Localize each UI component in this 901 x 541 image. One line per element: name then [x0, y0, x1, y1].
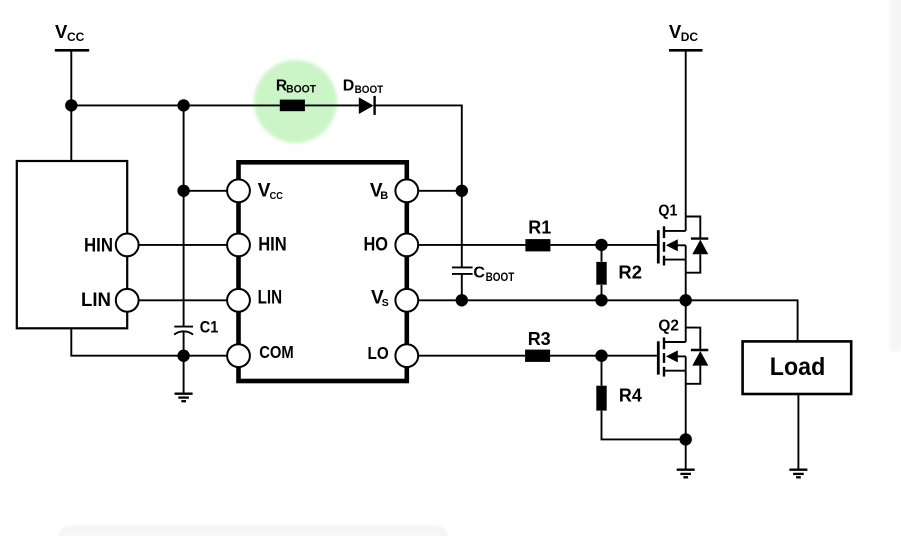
transistor Q1 — [658, 202, 708, 272]
wire VS to Q2 drain — [685, 300, 687, 342]
junction dot VS-CBOOT — [456, 294, 468, 306]
transistor Q2 — [658, 318, 708, 384]
wire LO to R3 — [418, 355, 525, 357]
svg-text:R3: R3 — [528, 329, 551, 349]
capacitor CBOOT — [452, 264, 514, 283]
highlight circle around RBOOT — [254, 60, 337, 143]
svg-text:HIN: HIN — [258, 234, 287, 255]
svg-text:D: D — [343, 78, 355, 95]
wire Q2 source to ground — [685, 356, 687, 468]
junction dot COM row — [177, 350, 189, 362]
scrollbar strip right edge — [890, 0, 901, 352]
wire R4 to ground rail — [602, 411, 686, 440]
svg-text:R2: R2 — [618, 262, 642, 283]
pin VB — [370, 179, 418, 202]
IC U1 gate-driver box — [239, 162, 407, 381]
svg-text:LIN: LIN — [81, 290, 111, 311]
wire R1 to Q1 gate — [550, 244, 657, 246]
supply VDC — [669, 21, 703, 50]
svg-text:BOOT: BOOT — [355, 84, 384, 96]
pin LO — [368, 343, 419, 367]
svg-text:DC: DC — [681, 30, 699, 44]
ground below C1 — [175, 394, 193, 402]
svg-text:Q2: Q2 — [658, 318, 679, 335]
svg-text:LIN: LIN — [258, 287, 283, 308]
wire to VCC pin — [184, 190, 228, 192]
svg-text:C: C — [473, 264, 485, 281]
wire HO to R1 — [418, 244, 525, 246]
pin VCC — [227, 179, 283, 202]
junction dot VB node — [456, 185, 468, 197]
wire VDC down to Q1 drain — [685, 50, 687, 231]
wire RBOOT to DBOOT — [305, 104, 359, 106]
load box — [743, 341, 852, 394]
pin COM — [227, 342, 294, 367]
wire to R2 — [601, 245, 603, 262]
node HIN (source box pin) — [84, 234, 139, 257]
svg-text:B: B — [380, 190, 388, 202]
svg-text:CC: CC — [67, 30, 85, 44]
capacitor C1 — [174, 319, 218, 337]
pin LIN — [227, 287, 282, 311]
pin HO — [364, 234, 419, 257]
svg-text:HO: HO — [364, 234, 389, 255]
input source box — [17, 161, 127, 328]
wire R2 to VS row — [601, 285, 603, 300]
svg-text:R4: R4 — [619, 386, 642, 406]
wire load to ground — [797, 394, 799, 469]
wire VCC rail down to C1 — [183, 105, 185, 326]
svg-text:Load: Load — [770, 353, 826, 381]
resistor R1 — [525, 218, 551, 252]
wire C1 to ground — [183, 332, 185, 393]
resistor R2 — [596, 262, 642, 285]
diode DBOOT — [343, 78, 384, 115]
junction dot VCC bus left — [65, 99, 77, 111]
junction dot VCC bus mid — [177, 99, 189, 111]
wire VB to corner — [418, 190, 462, 192]
svg-text:R1: R1 — [528, 218, 551, 238]
wire top bus VCC to RBOOT — [71, 104, 279, 106]
ground below load — [789, 470, 807, 478]
junction dot Q2 source / R4 — [680, 433, 692, 445]
svg-text:BOOT: BOOT — [486, 272, 515, 284]
svg-text:BOOT: BOOT — [286, 83, 316, 95]
wire CBOOT to VS row — [461, 274, 463, 300]
junction dot VS-Q1 source — [680, 294, 692, 306]
svg-text:LO: LO — [368, 343, 389, 363]
wire COM from box — [71, 328, 228, 355]
svg-text:C1: C1 — [200, 319, 219, 337]
wire HIN — [139, 244, 228, 246]
junction dot HO/R2 — [595, 239, 607, 251]
wire R3 to Q2 gate — [550, 355, 657, 357]
junction dot VS-R2 — [595, 294, 607, 306]
junction dot LO/R4 — [595, 350, 607, 362]
wire LIN — [139, 299, 228, 301]
junction dot VCC pin row — [177, 185, 189, 197]
wire to R4 — [601, 356, 603, 386]
svg-text:Q1: Q1 — [658, 202, 677, 219]
svg-text:COM: COM — [259, 342, 294, 362]
supply VCC — [55, 21, 89, 50]
wire VCC down — [70, 50, 72, 162]
resistor R3 — [525, 329, 551, 362]
wire VB node to CBOOT — [461, 191, 463, 268]
resistor R4 — [596, 386, 642, 411]
svg-text:HIN: HIN — [84, 236, 113, 257]
wire DBOOT to VB corner — [375, 105, 462, 190]
bottom toolbar edge — [60, 528, 447, 541]
svg-text:S: S — [382, 297, 389, 309]
node LIN (source box pin) — [81, 289, 139, 312]
wire VS row — [418, 300, 797, 340]
pin HIN — [227, 234, 287, 257]
resistor RBOOT — [276, 78, 316, 112]
svg-text:CC: CC — [270, 190, 284, 202]
pin VS — [371, 287, 418, 311]
wire Q1 source to VS — [685, 245, 687, 300]
ground below Q2 — [677, 470, 695, 478]
